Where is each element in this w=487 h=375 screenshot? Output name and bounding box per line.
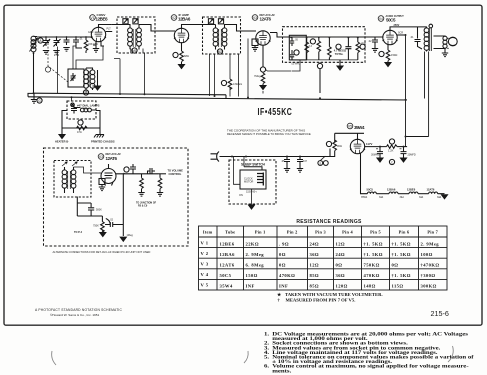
page curl marks xyxy=(52,346,454,365)
B plus riser wires xyxy=(406,35,429,147)
wire T1 to V2 xyxy=(143,25,175,32)
dial lamp feed wire xyxy=(71,97,73,101)
svg-text:MOTOR: MOTOR xyxy=(244,180,253,183)
svg-text:7Meg: 7Meg xyxy=(254,74,261,78)
svg-text:.02: .02 xyxy=(368,40,372,43)
svg-text:120Ω: 120Ω xyxy=(336,284,348,289)
svg-text:50C5: 50C5 xyxy=(367,187,374,191)
svg-text:INF: INF xyxy=(279,284,288,289)
V3 plate wire to V4 xyxy=(270,33,383,38)
grid pin labels V1 xyxy=(88,28,111,47)
svg-text:470KΩ: 470KΩ xyxy=(364,273,380,278)
svg-text:V5: V5 xyxy=(348,125,352,129)
svg-text:3.3: 3.3 xyxy=(309,45,313,48)
surge resistor R10 xyxy=(326,133,341,156)
svg-text:M2: M2 xyxy=(218,50,223,54)
cathode resistor under V4 xyxy=(379,44,397,66)
svg-text:HEATER B-: HEATER B- xyxy=(55,140,69,144)
svg-text:ALTERNATE CONNECTIONS FOR DET-: ALTERNATE CONNECTIONS FOR DET-AVC-AF WHE… xyxy=(53,250,151,254)
alt label V3 xyxy=(98,152,121,161)
T3 secondary voice coil xyxy=(434,36,448,49)
svg-text:12BA6: 12BA6 xyxy=(178,17,191,22)
svg-text:V 5: V 5 xyxy=(201,283,209,288)
variable capacitor C1A xyxy=(43,37,50,54)
diode plate couplate box under V3 xyxy=(252,39,258,51)
T2 secondary coil xyxy=(222,25,228,50)
svg-text:#47 DIAL LAMPS: #47 DIAL LAMPS xyxy=(77,103,100,107)
wire V3 cathode to couplate xyxy=(266,60,300,71)
V3 cathode chain xyxy=(254,45,266,90)
svg-text:V3: V3 xyxy=(99,155,103,159)
svg-text:V 2: V 2 xyxy=(201,251,209,256)
svg-text:115Ω: 115Ω xyxy=(392,284,404,289)
svg-text:INF: INF xyxy=(246,284,255,289)
svg-text:.05: .05 xyxy=(295,39,299,42)
heater 12BE6 xyxy=(398,187,418,199)
svg-text:TAKEN WITH VACUUM TUBE VOLTMET: TAKEN WITH VACUUM TUBE VOLTMETER. xyxy=(285,292,383,297)
svg-text:★: ★ xyxy=(277,292,282,297)
svg-text:6. 8Meg: 6. 8Meg xyxy=(246,263,265,268)
svg-text:85Ω: 85Ω xyxy=(310,284,320,289)
svg-text:12BE6: 12BE6 xyxy=(220,241,235,246)
line bypass capacitor C10 xyxy=(281,157,290,173)
svg-text:12BA6: 12BA6 xyxy=(387,187,396,191)
svg-text:12BE6: 12BE6 xyxy=(407,187,416,191)
sleep switch label xyxy=(241,163,266,167)
audio output tube V4 50C5 xyxy=(382,30,397,44)
svg-text:R5 & C9: R5 & C9 xyxy=(138,205,148,208)
couplate cap mid xyxy=(345,38,351,60)
alternate connections outer dashed box xyxy=(44,148,189,246)
svg-text:50C5: 50C5 xyxy=(220,273,232,278)
svg-text:12AT6: 12AT6 xyxy=(220,263,235,268)
svg-text:ments.: ments. xyxy=(272,369,292,374)
plate wire V4 from tube top to output transformer xyxy=(390,24,427,31)
svg-text:V 1: V 1 xyxy=(201,240,209,245)
svg-text:0Ω: 0Ω xyxy=(279,252,286,257)
svg-text:TO P-4: TO P-4 xyxy=(74,231,83,234)
alt couplate box xyxy=(99,179,105,191)
svg-text:36Ω: 36Ω xyxy=(336,273,346,278)
svg-text:Pin 5: Pin 5 xyxy=(370,230,381,235)
IF frequency label xyxy=(258,106,293,118)
svg-text:2. 9Meg: 2. 9Meg xyxy=(246,252,265,257)
junction dots AC line xyxy=(231,156,301,158)
junction dots input xyxy=(45,36,87,38)
page number 215-6 xyxy=(431,309,449,318)
node A circle xyxy=(38,38,43,43)
svg-text:115V 60∿: 115V 60∿ xyxy=(246,190,258,193)
svg-text:Tube: Tube xyxy=(225,230,235,235)
alt af output drop xyxy=(120,174,133,241)
T1 trimmers xyxy=(123,19,138,24)
wire T2 to V3 xyxy=(229,25,257,32)
clock switch internals comb xyxy=(244,167,263,186)
resistance readings title xyxy=(296,219,362,225)
rectifier top wire xyxy=(335,133,364,140)
capacitor C3 xyxy=(63,37,69,51)
notes list below frame xyxy=(264,332,475,374)
svg-text:ON: ON xyxy=(239,194,243,197)
svg-text:RECEIVER MAKES IT POSSIBLE TO: RECEIVER MAKES IT POSSIBLE TO BRING YOU … xyxy=(227,132,311,136)
label V4 xyxy=(378,15,404,23)
svg-text:CONTROL: CONTROL xyxy=(169,172,182,176)
speaker SP xyxy=(447,37,457,48)
T2 core xyxy=(219,29,222,47)
alt IF transformer dashed box xyxy=(54,161,91,198)
svg-text:85Ω: 85Ω xyxy=(310,273,320,278)
filter cap C12B xyxy=(400,147,416,162)
volume control R5 xyxy=(317,62,322,93)
svg-text:12Ω: 12Ω xyxy=(310,263,320,268)
svg-text:215-6: 215-6 xyxy=(431,309,449,318)
junction dots bus xyxy=(33,92,322,99)
svg-text:M1: M1 xyxy=(132,49,137,53)
svg-text:.05: .05 xyxy=(281,160,285,163)
svg-text:47Ω: 47Ω xyxy=(77,131,82,134)
svg-text:.01: .01 xyxy=(410,36,414,39)
svg-text:30MFD: 30MFD xyxy=(371,154,379,157)
svg-text:Pin 2: Pin 2 xyxy=(287,230,298,235)
heater 12AT6 xyxy=(418,187,438,199)
cooperation fine print xyxy=(227,128,311,136)
junction dot riser xyxy=(405,34,407,138)
coupling cap to V4 grid xyxy=(368,37,378,52)
filter resistor R11 xyxy=(387,139,408,153)
IF amp tube V2 12BA6 xyxy=(174,28,189,42)
svg-text:.05 MFD: .05 MFD xyxy=(291,63,300,66)
alt plate load network xyxy=(116,164,166,196)
svg-text:300KΩ: 300KΩ xyxy=(421,284,437,289)
svg-text:Pin 7: Pin 7 xyxy=(427,230,438,235)
heater ground xyxy=(437,194,448,199)
junction dots B plus xyxy=(379,146,405,148)
svg-text:68Ω: 68Ω xyxy=(184,54,189,58)
svg-text:†1. 5KΩ: †1. 5KΩ xyxy=(364,241,383,246)
label V1 xyxy=(90,13,108,22)
couplate bottom rail xyxy=(289,59,358,61)
svg-text:500K: 500K xyxy=(96,209,102,212)
svg-text:V2: V2 xyxy=(172,16,176,20)
footer photofact text xyxy=(35,308,123,317)
alt tube input wire xyxy=(74,167,102,173)
alt tube V3 circle xyxy=(101,164,116,186)
svg-text:0Ω: 0Ω xyxy=(392,263,399,268)
svg-text:12BA6: 12BA6 xyxy=(220,252,236,257)
svg-text:Pin 3: Pin 3 xyxy=(315,230,326,235)
alt T trimmers xyxy=(62,162,77,166)
switch box leads xyxy=(234,157,252,205)
B- bus line upper xyxy=(34,93,227,95)
svg-text:. 9Ω: . 9Ω xyxy=(279,241,289,246)
switch ground xyxy=(249,205,255,209)
label V2 xyxy=(171,13,191,22)
svg-text:30Ω: 30Ω xyxy=(337,144,342,148)
T1 primary coil xyxy=(111,25,132,50)
svg-text:36Ω: 36Ω xyxy=(310,252,320,257)
osc wires to V1 xyxy=(73,42,103,94)
svg-text:150Ω: 150Ω xyxy=(391,53,397,57)
svg-text:0.6MEG: 0.6MEG xyxy=(233,83,242,86)
couplate ref circle 2 xyxy=(336,44,341,49)
svg-text:470K: 470K xyxy=(361,43,367,46)
dial lamp leads xyxy=(62,111,100,129)
svg-text:35W4: 35W4 xyxy=(220,284,233,289)
osc coil windings xyxy=(84,68,95,90)
couplate ground xyxy=(337,60,343,70)
output transformer T3 primary xyxy=(424,27,429,52)
svg-text:PRINTED CHASSIS: PRINTED CHASSIS xyxy=(91,140,115,144)
label V3 xyxy=(252,13,275,22)
svg-text:GRD: GRD xyxy=(88,31,94,34)
loop antenna L1 xyxy=(30,36,38,93)
svg-text:†1. 5KΩ: †1. 5KΩ xyxy=(392,241,411,246)
wire grid bus V1 xyxy=(37,36,92,38)
svg-text:SLEEP SWITCH: SLEEP SWITCH xyxy=(241,163,266,167)
rectifier tube V5 35W4 xyxy=(350,139,365,153)
couplate resistor 470k left xyxy=(328,38,332,60)
svg-text:3&4: 3&4 xyxy=(419,196,424,199)
alt T core xyxy=(68,171,71,189)
clock switch inner box xyxy=(240,170,266,189)
svg-text:V 3: V 3 xyxy=(201,262,209,267)
T3 terminal xyxy=(429,24,433,28)
svg-text:TOTAL: TOTAL xyxy=(335,52,344,56)
alt avc rc network xyxy=(74,197,106,237)
osc ref circle xyxy=(83,90,88,95)
svg-text:Pin 6: Pin 6 xyxy=(399,230,410,235)
alt to volume text xyxy=(136,169,183,208)
svg-text:†: † xyxy=(278,298,281,303)
svg-text:100Ω: 100Ω xyxy=(421,252,433,257)
svg-text:.01: .01 xyxy=(79,37,83,41)
svg-text:5.: 5. xyxy=(264,355,270,360)
on-off switch SW xyxy=(318,156,328,166)
svg-text:IF•455KC: IF•455KC xyxy=(258,106,293,118)
couplate text xyxy=(291,39,366,66)
svg-text:300: 300 xyxy=(83,108,88,111)
svg-text:3&4: 3&4 xyxy=(400,196,405,199)
AC plug P1 xyxy=(211,152,222,162)
svg-text:A PHOTOFACT STANDARD NOTATI: A PHOTOFACT STANDARD NOTATION SCHEMATIC xyxy=(35,308,123,312)
svg-text:20MFD: 20MFD xyxy=(408,154,416,157)
svg-text:3&4: 3&4 xyxy=(437,196,442,199)
heater B- ground xyxy=(55,128,69,144)
svg-text:12AT6: 12AT6 xyxy=(427,187,435,191)
svg-text:2-14: 2-14 xyxy=(54,53,60,57)
svg-text:0Ω: 0Ω xyxy=(336,263,343,268)
svg-text:750K: 750K xyxy=(93,225,99,228)
table footnotes xyxy=(277,292,383,302)
B- bus line lower xyxy=(28,97,407,100)
cathode parts under V1 xyxy=(93,41,104,52)
couplate junction dots xyxy=(290,36,359,38)
capacitor C4 grid coupling xyxy=(73,37,83,49)
converter tube V1 12BE6 xyxy=(91,25,112,42)
resistance table xyxy=(199,226,448,290)
filter cap C12A xyxy=(371,147,383,162)
alt af coupling cap xyxy=(105,219,123,228)
svg-text:3&4: 3&4 xyxy=(379,196,384,199)
AVC dashed line xyxy=(45,40,68,83)
AC line wire xyxy=(222,149,331,157)
osc ground xyxy=(93,70,101,90)
couplate ref circle xyxy=(310,39,315,44)
svg-text:12AT6: 12AT6 xyxy=(106,156,118,161)
heater 50C5 xyxy=(361,187,376,199)
dial lamp symbol xyxy=(71,103,96,114)
svg-text:117V: 117V xyxy=(366,142,373,146)
svg-text:PLT: PLT xyxy=(107,28,112,31)
heater 12BA6 xyxy=(376,187,398,199)
cathode resistor R2 under V2 xyxy=(173,42,189,68)
svg-text:1.: 1. xyxy=(264,332,270,337)
svg-text:V1: V1 xyxy=(90,16,94,20)
svg-text:12Ω: 12Ω xyxy=(336,241,346,246)
svg-text:†1. 5KΩ: †1. 5KΩ xyxy=(364,252,383,257)
T2 primary coil xyxy=(213,25,218,50)
svg-text:Pin 1: Pin 1 xyxy=(255,230,266,235)
sleep switch dashed box xyxy=(229,160,276,204)
T1 core xyxy=(133,29,136,47)
T2 ref circle xyxy=(217,49,222,54)
svg-text:©Howard W. Sams & Co., Inc. 19: ©Howard W. Sams & Co., Inc. 1951 xyxy=(50,313,99,317)
svg-text:148Ω: 148Ω xyxy=(364,284,376,289)
svg-text:1Meg: 1Meg xyxy=(127,234,134,237)
T1 ref circle xyxy=(132,48,137,53)
wire V2 plate to T2 xyxy=(182,25,216,29)
svg-text:MEASURED FROM PIN 7 OF V5.: MEASURED FROM PIN 7 OF V5. xyxy=(285,298,355,303)
line bypass capacitor C11 xyxy=(297,157,308,173)
det avc af tube V3 12AT6 xyxy=(255,31,270,45)
alt caption xyxy=(53,250,151,254)
tone capacitor across primary xyxy=(410,27,422,49)
svg-text:Pin 4: Pin 4 xyxy=(342,230,353,235)
svg-text:250V: 250V xyxy=(394,24,400,27)
resistor R4 0.6MEG on T2 drop xyxy=(221,79,242,90)
couplate network dashed box PC-90 xyxy=(283,27,366,63)
table text xyxy=(201,230,440,289)
label V5 xyxy=(347,123,365,130)
svg-text:1.2K: 1.2K xyxy=(388,149,394,153)
svg-text:750KΩ: 750KΩ xyxy=(364,263,380,268)
B plus output wire xyxy=(364,142,386,147)
dial lamp dashed box xyxy=(67,101,96,119)
speaker ground xyxy=(442,49,448,57)
svg-text:35W4: 35W4 xyxy=(361,196,368,199)
couplate resistor 3.3meg xyxy=(305,38,309,60)
screen wire V4 to B+ riser xyxy=(397,32,406,36)
T1 secondary coil xyxy=(137,25,143,50)
couplate resistor 2 xyxy=(317,38,321,60)
svg-text:12AT6: 12AT6 xyxy=(260,17,272,22)
couplate resistor 470k right xyxy=(356,38,360,60)
couplate ref circle 3 xyxy=(360,44,365,49)
svg-text:V 4: V 4 xyxy=(201,272,209,277)
svg-text:24Ω: 24Ω xyxy=(336,252,346,257)
svg-text:Volume control at maximum, no: Volume control at maximum, no signal app… xyxy=(272,364,468,369)
dial lamp text xyxy=(77,103,100,110)
bus connector xyxy=(28,93,226,98)
svg-text:S: S xyxy=(319,162,321,166)
svg-text:RESISTANCE READINGS: RESISTANCE READINGS xyxy=(296,219,362,225)
couplate inner unit box xyxy=(289,35,306,60)
alt T secondary coil xyxy=(71,167,76,193)
svg-text:2. 9Meg: 2. 9Meg xyxy=(421,241,440,246)
svg-text:35W4: 35W4 xyxy=(354,125,365,130)
resistor R1 grid leak xyxy=(84,37,93,53)
bus drop wires xyxy=(58,39,264,98)
svg-text:†1. 5KΩ: †1. 5KΩ xyxy=(392,252,411,257)
svg-text:22KΩ: 22KΩ xyxy=(246,241,260,246)
IF transformer T2 box xyxy=(203,17,241,54)
heater wire from V5 xyxy=(361,154,368,194)
ballast resistor R9 xyxy=(77,120,88,134)
printed chassis ground xyxy=(91,128,115,144)
svg-text:24Ω: 24Ω xyxy=(310,241,320,246)
svg-text:50C5: 50C5 xyxy=(386,18,396,23)
clock switch text xyxy=(239,177,258,197)
external antenna symbol xyxy=(31,93,42,103)
trimmer capacitor C2 xyxy=(53,37,60,57)
svg-text:V3: V3 xyxy=(253,16,257,20)
svg-text:Item: Item xyxy=(203,230,213,235)
svg-text:SCR: SCR xyxy=(398,32,403,35)
svg-text:6.: 6. xyxy=(264,364,270,369)
svg-text:.047: .047 xyxy=(302,160,307,163)
svg-text:TO VOLUME: TO VOLUME xyxy=(168,169,184,173)
svg-text:.02: .02 xyxy=(110,219,114,222)
alt T primary coil xyxy=(62,167,67,193)
svg-text:†470KΩ: †470KΩ xyxy=(421,263,440,268)
T3 core xyxy=(429,28,431,51)
couplate inner cap R network xyxy=(290,38,299,60)
IF transformer T1 box xyxy=(117,17,155,53)
svg-text:†300Ω: †300Ω xyxy=(421,273,436,278)
T2 trimmers xyxy=(208,19,223,24)
svg-text:†1. 5KΩ: †1. 5KΩ xyxy=(392,273,411,278)
svg-text:12BE6: 12BE6 xyxy=(96,17,109,22)
svg-text:470KΩ: 470KΩ xyxy=(279,273,295,278)
oscillator coil box L2 xyxy=(68,69,84,87)
svg-text:V4: V4 xyxy=(379,17,383,21)
svg-text:0Ω: 0Ω xyxy=(279,263,286,268)
node C circle xyxy=(389,159,394,164)
svg-text:150Ω: 150Ω xyxy=(246,273,258,278)
